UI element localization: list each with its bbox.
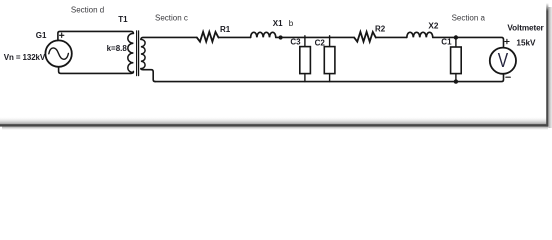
wire: X1 through node b, C3 and C2 taps to R2 bbox=[276, 36, 354, 38]
capacitor C3 top lead bbox=[304, 36, 306, 47]
svg-text:C1: C1 bbox=[441, 38, 452, 47]
node b junction dot bbox=[279, 35, 283, 39]
image frame right border line bbox=[546, 3, 548, 11]
wire: source bottom lead and primary bottom wire bbox=[59, 67, 134, 74]
source G1 sine wave bbox=[49, 48, 69, 59]
voltmeter minus polarity mark bbox=[506, 76, 510, 78]
svg-text:Section a: Section a bbox=[452, 13, 486, 22]
svg-text:C2: C2 bbox=[315, 38, 326, 47]
capacitor C3 bottom lead bbox=[304, 74, 306, 82]
svg-text:X2: X2 bbox=[428, 21, 438, 30]
svg-text:G1: G1 bbox=[36, 31, 47, 40]
capacitor C3 body bbox=[300, 47, 311, 74]
capacitor C2 bottom lead bbox=[329, 74, 331, 82]
resistor R1 bbox=[197, 32, 219, 42]
inductor X2 bbox=[407, 32, 433, 37]
transformer T1 secondary winding bbox=[141, 39, 145, 68]
capacitor C1 bottom lead bbox=[455, 74, 457, 82]
svg-text:Section d: Section d bbox=[71, 5, 104, 14]
image frame right shadow bbox=[548, 7, 552, 128]
wire: source top lead and primary top wire bbox=[58, 31, 133, 40]
svg-text:R2: R2 bbox=[375, 25, 386, 34]
svg-text:V: V bbox=[498, 49, 508, 71]
svg-text:15kV: 15kV bbox=[516, 39, 536, 48]
wire: long bottom return wire bbox=[155, 75, 503, 82]
source G1 plus polarity mark bbox=[60, 33, 64, 37]
inductor X1 bbox=[251, 32, 276, 37]
svg-text:X1: X1 bbox=[273, 19, 283, 28]
wire: R2 to X2 bbox=[376, 36, 407, 38]
wire: R1 to X1 bbox=[219, 36, 251, 38]
svg-text:b: b bbox=[289, 19, 294, 28]
node junction dot at C1 bottom bbox=[454, 79, 458, 83]
voltmeter plus polarity mark bbox=[505, 39, 509, 43]
svg-text:Voltmeter: Voltmeter bbox=[507, 24, 544, 33]
wire: X2 through C1 tap to voltmeter bbox=[433, 37, 504, 46]
capacitor C1 body bbox=[451, 47, 462, 74]
image frame bottom under-shadow bbox=[2, 127, 548, 130]
transformer T1 core bbox=[137, 31, 139, 76]
resistor R2 bbox=[354, 32, 376, 42]
capacitor C2 body bbox=[324, 47, 335, 74]
wire: secondary bottom lead with step down bbox=[141, 69, 155, 82]
node junction dot at C1 top bbox=[454, 35, 458, 39]
capacitor C1 top lead bbox=[455, 37, 457, 47]
svg-text:C3: C3 bbox=[290, 37, 301, 46]
capacitor C2 top lead bbox=[329, 36, 331, 47]
voltmeter circle bbox=[490, 48, 516, 74]
image frame bottom border line bbox=[0, 124, 548, 127]
svg-text:Vn = 132kV: Vn = 132kV bbox=[4, 53, 46, 62]
svg-text:R1: R1 bbox=[220, 25, 231, 34]
transformer T1 primary winding bbox=[128, 33, 134, 72]
image frame bottom shadow halo bbox=[0, 117, 547, 125]
svg-text:Section c: Section c bbox=[155, 14, 188, 23]
source G1 circle bbox=[45, 40, 71, 66]
svg-text:T1: T1 bbox=[118, 15, 128, 24]
svg-text:k=8.8: k=8.8 bbox=[107, 44, 128, 53]
wire: secondary top lead bbox=[141, 37, 197, 39]
